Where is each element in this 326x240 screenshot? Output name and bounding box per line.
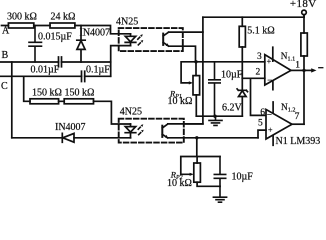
N1.2 output wire bbox=[292, 123, 304, 125]
svg-text:C: C bbox=[1, 81, 8, 92]
svg-text:3: 3 bbox=[257, 52, 262, 62]
junction emitter2/RP2/pin5 node bbox=[195, 136, 198, 139]
wire line C bbox=[1, 75, 111, 77]
output pull-up resistor bbox=[303, 15, 305, 33]
diode IN4007 (vertical) bbox=[77, 26, 85, 63]
optocoupler 4N25 (top) dashed box bbox=[119, 28, 183, 51]
N1.1 output wire bbox=[291, 69, 304, 71]
wire output node vertical bbox=[303, 56, 305, 124]
optocoupler 4N25 (bottom) dashed box bbox=[119, 119, 184, 143]
svg-text:24 kΩ: 24 kΩ bbox=[51, 11, 76, 22]
op-amp N1.2 bbox=[266, 109, 292, 139]
capacitor 0.1µF (series on C) bbox=[82, 71, 85, 81]
svg-text:5.1 kΩ: 5.1 kΩ bbox=[247, 26, 274, 37]
svg-text:10µF: 10µF bbox=[221, 70, 243, 81]
junction emitter1/RP1/pin3 node bbox=[194, 60, 197, 63]
svg-text:N1.2: N1.2 bbox=[281, 103, 295, 113]
wire B down to bottom rail bbox=[11, 62, 13, 138]
svg-text:N1.1: N1.1 bbox=[281, 52, 295, 62]
capacitor 0.01µF (series on B) bbox=[59, 57, 62, 67]
svg-text:6: 6 bbox=[260, 108, 265, 118]
wire 150k branch from line C bbox=[24, 76, 131, 124]
svg-text:+: + bbox=[268, 125, 273, 134]
wire line A bbox=[2, 26, 131, 34]
svg-text:7: 7 bbox=[295, 112, 300, 122]
wire top rail bbox=[203, 16, 304, 18]
svg-text:5: 5 bbox=[258, 118, 263, 128]
svg-text:150 kΩ: 150 kΩ bbox=[65, 87, 95, 98]
resistor 150kΩ (1) bbox=[30, 99, 59, 104]
svg-text:+: + bbox=[267, 57, 272, 66]
opto1 light arrows bbox=[138, 37, 141, 45]
svg-text:1: 1 bbox=[295, 60, 300, 70]
opto2 light arrows bbox=[138, 127, 140, 134]
svg-text:10 kΩ: 10 kΩ bbox=[167, 178, 192, 189]
capacitor 10µF (middle) bbox=[209, 62, 220, 116]
junction output node bbox=[302, 69, 305, 72]
svg-text:0.01µF: 0.01µF bbox=[31, 64, 60, 75]
svg-text:+18V: +18V bbox=[290, 0, 317, 10]
svg-text:4N25: 4N25 bbox=[116, 16, 138, 27]
resistor 300kΩ bbox=[8, 23, 33, 28]
opto2 phototransistor bbox=[161, 126, 163, 137]
capacitor 10µF (bottom) bbox=[214, 157, 225, 187]
diode IN4007 (horizontal on bottom rail) bbox=[62, 133, 74, 142]
potentiometer RP2 with 10µF bbox=[181, 138, 220, 187]
output arrow bbox=[304, 69, 312, 71]
svg-text:IN4007: IN4007 bbox=[80, 27, 111, 38]
svg-text:−: − bbox=[267, 75, 272, 85]
pin2 wire bbox=[242, 77, 264, 79]
svg-text:6.2V: 6.2V bbox=[222, 103, 243, 114]
resistor 24kΩ bbox=[50, 23, 75, 28]
svg-text:0.015µF: 0.015µF bbox=[38, 31, 72, 42]
+18V terminal bbox=[302, 10, 307, 15]
ground line (middle) bbox=[196, 115, 242, 117]
opto1 LED bbox=[125, 34, 136, 46]
svg-text:N1 LM393: N1 LM393 bbox=[276, 136, 321, 147]
svg-text:4N25: 4N25 bbox=[120, 106, 142, 117]
svg-text:10 kΩ: 10 kΩ bbox=[168, 96, 193, 107]
pin5 wire step bbox=[258, 130, 266, 138]
svg-text:B: B bbox=[2, 50, 9, 61]
opto1 phototransistor bbox=[162, 34, 164, 45]
opto2 LED bbox=[125, 124, 136, 138]
wire node joining B and C to opto1 LED cathode bbox=[111, 46, 131, 77]
ground symbol (bottom) bbox=[213, 186, 226, 202]
svg-text:150 kΩ: 150 kΩ bbox=[32, 87, 62, 98]
svg-text:0.1µF: 0.1µF bbox=[86, 65, 110, 76]
op-amp N1.1 bbox=[265, 55, 291, 85]
svg-text:300 kΩ: 300 kΩ bbox=[7, 11, 37, 22]
wire bottom rail bbox=[12, 137, 131, 139]
resistor 150kΩ (2) bbox=[64, 99, 93, 104]
pin3 wire bbox=[196, 61, 265, 63]
svg-text:−: − bbox=[267, 110, 272, 120]
wire line B bbox=[1, 61, 111, 63]
resistor 5.1kΩ bbox=[241, 17, 243, 78]
wire +18V vertical V1 to collectors bbox=[184, 17, 203, 124]
svg-text:10µF: 10µF bbox=[232, 171, 254, 182]
svg-text:2: 2 bbox=[256, 67, 261, 77]
potentiometer RP1 bbox=[181, 62, 196, 116]
capacitor 0.015µF bbox=[29, 26, 42, 63]
pin2 to pin6 wire bbox=[251, 78, 267, 115]
ground symbol (middle) bbox=[209, 116, 222, 125]
svg-text:A: A bbox=[2, 26, 10, 37]
junction ground line node bbox=[213, 115, 216, 118]
svg-text:IN4007: IN4007 bbox=[55, 122, 86, 133]
zener diode 6.2V bbox=[237, 78, 247, 116]
